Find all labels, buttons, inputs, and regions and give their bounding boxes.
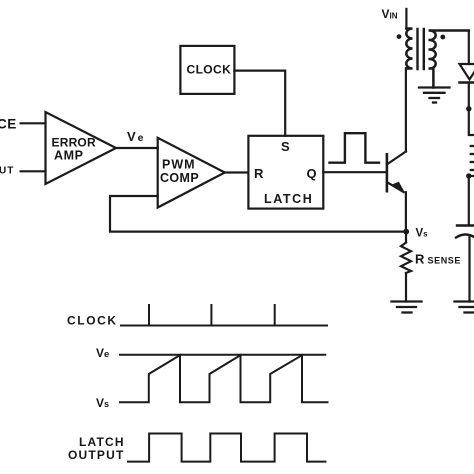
- svg-text:CLOCK: CLOCK: [67, 314, 118, 328]
- svg-text:AMP: AMP: [54, 149, 84, 163]
- comparator U2 PWM COMP: [158, 138, 225, 208]
- wire capacitor to ground: [468, 237, 470, 302]
- transformer T1 secondary winding: [429, 30, 469, 87]
- svg-text:Vs: Vs: [96, 396, 109, 410]
- waveform clock pulse tick 3: [274, 305, 276, 326]
- waveform latch output square wave: [128, 434, 325, 462]
- svg-text:PWM: PWM: [162, 158, 196, 172]
- transformer secondary phasing dot: [440, 35, 445, 40]
- transformer T1 primary winding: [406, 29, 412, 69]
- wire feedback from Vs node to PWM comp inverting input: [110, 196, 406, 232]
- wire junction to inductor: [469, 109, 474, 136]
- wire latch Q output to transistor base: [323, 171, 386, 173]
- svg-text:S: S: [281, 139, 290, 154]
- svg-text:LATCH: LATCH: [264, 192, 313, 206]
- wire collector to transformer primary: [405, 69, 407, 152]
- wire error amp output to PWM comp: [116, 147, 158, 149]
- clock generator CLOCK box: [180, 46, 234, 94]
- junction node at inductor output: [466, 173, 471, 178]
- junction node at diode output: [466, 106, 471, 111]
- svg-text:Q: Q: [307, 166, 317, 181]
- transistor Q1 collector stroke: [388, 152, 406, 165]
- wire Vs node to resistor: [405, 232, 407, 243]
- transformer primary phasing dot: [397, 34, 402, 39]
- waveform clock baseline: [121, 325, 327, 327]
- ground under transformer secondary: [419, 88, 450, 103]
- svg-text:LATCH: LATCH: [79, 435, 125, 449]
- junction node Vs: [403, 229, 409, 235]
- capacitor C1 top plate: [457, 224, 474, 226]
- svg-text:Ve: Ve: [96, 346, 109, 360]
- wire junction to capacitor: [468, 176, 470, 226]
- svg-text:Ve: Ve: [127, 129, 146, 144]
- svg-text:CE: CE: [0, 117, 17, 132]
- ground under capacitor: [455, 302, 474, 313]
- op-amp U1 ERROR AMP: [46, 112, 117, 184]
- latch U3 box: [248, 136, 323, 209]
- svg-text:R SENSE: R SENSE: [415, 252, 461, 267]
- pulse waveform symbol: [330, 133, 380, 163]
- svg-text:VIN: VIN: [382, 7, 398, 21]
- svg-text:COMP: COMP: [160, 171, 199, 185]
- svg-text:CLOCK: CLOCK: [187, 63, 232, 77]
- waveform Vs ramp sawtooth: [120, 355, 328, 402]
- diode D1: [460, 64, 474, 80]
- transistor Q1 base bar: [386, 154, 389, 191]
- wire secondary top to rectifier diode: [468, 31, 470, 65]
- svg-text:ERROR: ERROR: [52, 136, 96, 150]
- transformer T1 core lines: [418, 29, 424, 69]
- transistor Q1 emitter stroke with arrow: [388, 183, 404, 193]
- ground under R_SENSE: [392, 302, 422, 313]
- wire resistor to ground: [405, 273, 407, 302]
- waveform Ve level line: [120, 354, 325, 356]
- wire emitter to Vs node: [405, 192, 407, 231]
- wire PWM comp output to latch R input: [225, 171, 249, 173]
- wire reference input: [21, 122, 46, 124]
- svg-text:Vs: Vs: [416, 228, 429, 240]
- diode D1 cathode bar: [460, 81, 474, 84]
- wire clock output to latch S input: [234, 71, 285, 136]
- waveform clock pulse tick 1: [148, 305, 150, 326]
- svg-text:OUTPUT: OUTPUT: [68, 448, 125, 462]
- wire VIN supply: [405, 9, 407, 29]
- wire vout input: [21, 170, 46, 172]
- capacitor C1 bottom plate (curved): [456, 235, 474, 238]
- svg-text:UT: UT: [0, 166, 14, 177]
- inductor L1 (cropped at edge): [471, 146, 474, 170]
- svg-text:R: R: [254, 166, 264, 181]
- wire inductor to junction: [469, 175, 474, 177]
- resistor R_SENSE: [401, 243, 411, 274]
- wire diode cathode down: [468, 83, 470, 110]
- waveform clock pulse tick 2: [210, 305, 212, 326]
